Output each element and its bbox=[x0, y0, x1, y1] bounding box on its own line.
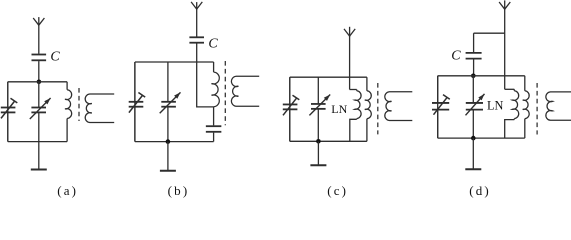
node ground junction (d) bbox=[471, 136, 476, 141]
ground (b) bbox=[160, 142, 176, 171]
wire bottom rail (b) bbox=[135, 141, 214, 143]
ground (d) bbox=[465, 138, 481, 169]
trimmer capacitor (d) bbox=[432, 76, 450, 138]
label (b) bbox=[168, 183, 190, 198]
wire left side (d) bbox=[437, 76, 439, 138]
wire tap horizontal (c) bbox=[350, 89, 357, 91]
antenna (b) bbox=[191, 2, 202, 10]
wire bottom rail (d) bbox=[438, 137, 525, 139]
wire antenna to C (b) bbox=[196, 9, 198, 36]
wire tap (b) bbox=[197, 106, 214, 108]
inductor L primary (b) bbox=[212, 62, 220, 107]
antenna (d) bbox=[499, 0, 510, 9]
wire left side (b) bbox=[134, 62, 136, 142]
svg-text:(a): (a) bbox=[57, 183, 78, 198]
wire antenna to tap (c) bbox=[349, 36, 351, 89]
transformer core (c) bbox=[377, 83, 379, 134]
transformer core (d) bbox=[536, 83, 538, 135]
label (c) bbox=[327, 183, 348, 198]
wire LN step (d) bbox=[505, 120, 515, 139]
label (a) bbox=[57, 183, 78, 198]
ground (a) bbox=[31, 142, 47, 170]
antenna (a) bbox=[33, 17, 44, 26]
capacitor C (a) bbox=[32, 55, 47, 61]
inductor L primary (c) bbox=[365, 77, 371, 141]
node top junction (a) bbox=[37, 80, 42, 85]
capacitor C (d) bbox=[466, 53, 482, 59]
wire top rail (c) bbox=[290, 76, 367, 78]
node ground junction (c) bbox=[316, 139, 321, 144]
wire left side (c) bbox=[289, 77, 291, 141]
variable capacitor (c) bbox=[309, 77, 330, 141]
wire bottom rail (a) bbox=[8, 141, 67, 143]
svg-text:C: C bbox=[50, 50, 60, 65]
capacitor C2 series (b) bbox=[206, 126, 222, 132]
wire C2 to rail (b) bbox=[213, 133, 215, 142]
trimmer capacitor (b) bbox=[129, 62, 146, 142]
wire LN step (c) bbox=[350, 119, 357, 141]
wire C to tank (a) bbox=[38, 61, 40, 82]
svg-text:C: C bbox=[451, 49, 461, 64]
label C (d) bbox=[451, 49, 461, 64]
variable capacitor (a) bbox=[30, 82, 51, 142]
label LN (d) bbox=[487, 99, 504, 113]
wire top rail (d) bbox=[438, 75, 525, 77]
label C (a) bbox=[50, 50, 60, 65]
variable capacitor (d) bbox=[466, 76, 485, 138]
inductor secondary (a) bbox=[85, 94, 114, 123]
inductor L primary (d) bbox=[523, 76, 529, 138]
antenna (c) bbox=[344, 27, 355, 37]
svg-text:(d): (d) bbox=[469, 183, 491, 198]
wire antenna to C (a) bbox=[38, 25, 40, 54]
node top junction (d) bbox=[471, 74, 476, 79]
wire antenna down (d) bbox=[504, 9, 506, 89]
capacitor C (b) bbox=[189, 37, 204, 42]
wire C bottom (d) bbox=[473, 59, 475, 75]
wire top rail (b) bbox=[135, 61, 214, 63]
variable capacitor (b) bbox=[160, 62, 181, 142]
trimmer capacitor (a) bbox=[1, 82, 18, 142]
svg-text:LN: LN bbox=[331, 102, 347, 116]
inductor L primary (a) bbox=[65, 82, 72, 142]
transformer core (a) bbox=[78, 88, 80, 121]
trimmer capacitor (c) bbox=[283, 77, 300, 141]
label (d) bbox=[469, 183, 491, 198]
ground (c) bbox=[310, 141, 326, 165]
svg-text:(c): (c) bbox=[327, 183, 348, 198]
wire bottom rail (c) bbox=[290, 140, 367, 142]
wire L to C2 (b) bbox=[213, 107, 215, 126]
inductor secondary (d) bbox=[546, 92, 571, 120]
label LN (c) bbox=[331, 102, 347, 116]
svg-text:LN: LN bbox=[487, 99, 504, 113]
svg-text:C: C bbox=[208, 37, 218, 52]
wire C to tap (b) bbox=[196, 44, 198, 108]
inductor LN antenna coil (c) bbox=[355, 90, 362, 120]
wire C top (d) bbox=[473, 33, 475, 52]
wire top rail (a) bbox=[8, 81, 67, 83]
wire left side (a) bbox=[7, 82, 9, 142]
svg-text:(b): (b) bbox=[168, 183, 190, 198]
wire tap horizontal (d) bbox=[505, 88, 515, 90]
inductor secondary (c) bbox=[385, 92, 412, 121]
transformer core (b) bbox=[224, 61, 226, 125]
node ground junction (b) bbox=[166, 139, 171, 144]
label C (b) bbox=[208, 37, 218, 52]
inductor LN antenna coil (d) bbox=[512, 89, 519, 119]
inductor secondary (b) bbox=[231, 76, 259, 106]
wire branch to C (d) bbox=[474, 32, 505, 34]
